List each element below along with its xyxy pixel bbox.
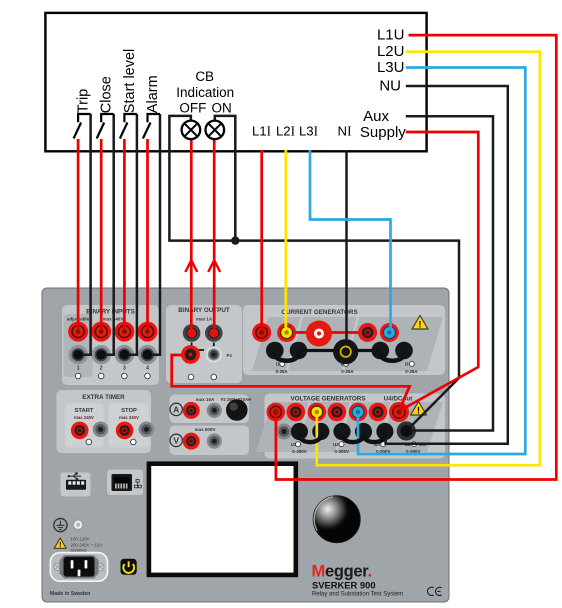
svg-text:Indication: Indication: [176, 85, 234, 100]
svg-text:Relay and Substation Test Syst: Relay and Substation Test System: [312, 592, 403, 598]
svg-text:L2I: L2I: [276, 124, 295, 139]
svg-text:U4/DCout: U4/DCout: [384, 396, 414, 403]
svg-text:Close: Close: [99, 76, 115, 113]
svg-text:V: V: [173, 436, 179, 446]
svg-text:CB: CB: [195, 69, 214, 84]
svg-text:!: !: [417, 406, 420, 416]
svg-text:ON: ON: [211, 101, 231, 116]
svg-text:max 240V: max 240V: [119, 415, 139, 420]
svg-text:BINARY INPUTS: BINARY INPUTS: [86, 309, 135, 316]
svg-text:0-300V: 0-300V: [292, 449, 307, 454]
svg-text:Start level: Start level: [122, 49, 138, 113]
svg-text:L1I: L1I: [252, 124, 271, 139]
svg-text:L3U: L3U: [377, 59, 405, 76]
svg-text:OFF: OFF: [179, 101, 206, 116]
svg-text:Trip: Trip: [76, 89, 92, 113]
svg-text:Made in Sweden: Made in Sweden: [50, 591, 90, 597]
svg-text:SVERKER 900: SVERKER 900: [312, 580, 376, 591]
svg-text:START: START: [75, 408, 94, 414]
svg-text:0-35A: 0-35A: [276, 369, 289, 374]
svg-text:Alarm: Alarm: [145, 75, 161, 113]
svg-text:A: A: [173, 405, 179, 415]
svg-text:NU: NU: [379, 78, 401, 95]
svg-text:0-35A: 0-35A: [405, 369, 418, 374]
svg-text:!: !: [59, 540, 62, 549]
svg-text:Supply: Supply: [360, 124, 406, 141]
svg-text:BINARY OUTPUT: BINARY OUTPUT: [178, 307, 230, 314]
svg-text:L1U: L1U: [377, 27, 405, 44]
svg-text:max 10A: max 10A: [196, 397, 215, 402]
svg-text:max 600V: max 600V: [195, 427, 216, 432]
svg-text:4: 4: [146, 365, 149, 371]
svg-text:L3I: L3I: [299, 124, 318, 139]
svg-text:0-300V: 0-300V: [335, 449, 350, 454]
svg-text:NI: NI: [338, 124, 352, 139]
svg-text:2: 2: [100, 365, 103, 371]
svg-text:200-240V ~ 10A: 200-240V ~ 10A: [71, 542, 103, 547]
svg-text:max 1A: max 1A: [196, 317, 213, 322]
svg-text:STOP: STOP: [121, 408, 137, 414]
svg-text:P1: P1: [227, 353, 233, 358]
svg-text:Megger.: Megger.: [312, 563, 372, 581]
svg-text:U2: U2: [333, 442, 339, 447]
svg-text:VOLTAGE GENERATORS: VOLTAGE GENERATORS: [290, 396, 365, 403]
svg-text:3: 3: [123, 365, 126, 371]
svg-text:L2U: L2U: [377, 43, 405, 60]
svg-text:I3: I3: [405, 362, 409, 367]
svg-text:0-35A: 0-35A: [341, 369, 354, 374]
svg-text:!: !: [419, 320, 422, 330]
svg-text:Aux: Aux: [363, 108, 389, 125]
svg-text:100-120V: 100-120V: [71, 537, 90, 542]
svg-text:EXTRA TIMER: EXTRA TIMER: [82, 394, 125, 401]
svg-text:1: 1: [77, 365, 80, 371]
svg-text:max 240V: max 240V: [74, 415, 94, 420]
